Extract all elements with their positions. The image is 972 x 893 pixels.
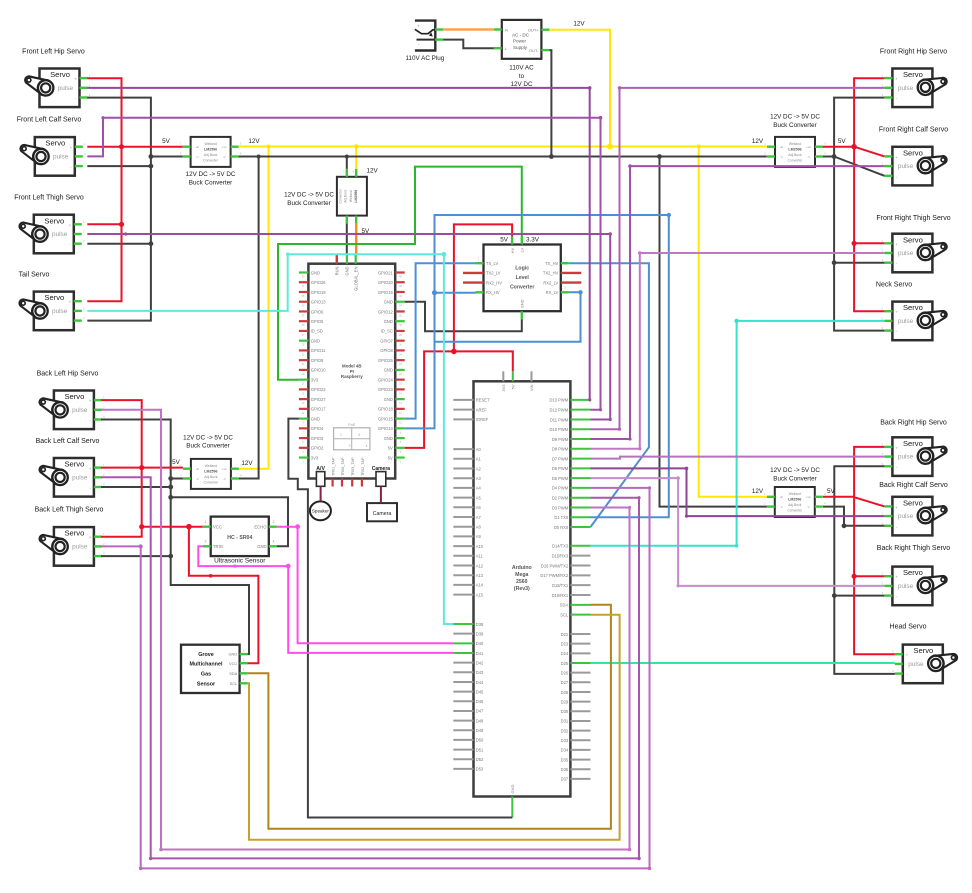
wire: back-right calf pulse to D6	[591, 468, 885, 516]
svg-text:PoE: PoE	[348, 423, 355, 427]
svg-text:D1 TX0: D1 TX0	[554, 515, 569, 520]
wire: AC plug to PSU N (orange)	[443, 28, 494, 31]
svg-text:5V: 5V	[162, 138, 171, 145]
svg-text:GPIO12: GPIO12	[378, 309, 394, 314]
svg-text:D3 PWM: D3 PWM	[552, 505, 569, 510]
svg-text:D35: D35	[561, 757, 569, 762]
wire: front-right hip pulse to D10	[591, 88, 885, 429]
svg-text:D28: D28	[561, 690, 569, 695]
svg-text:A5: A5	[476, 495, 482, 500]
svg-text:Head Servo: Head Servo	[890, 624, 927, 631]
svg-text:pulse: pulse	[72, 544, 88, 551]
svg-text:pulse: pulse	[908, 661, 924, 668]
svg-text:+V: +V	[780, 145, 784, 149]
svg-text:A0: A0	[476, 447, 482, 452]
svg-text:Front Right Hip Servo: Front Right Hip Servo	[880, 49, 947, 56]
svg-text:5V: 5V	[500, 237, 509, 244]
svg-text:-V: -V	[780, 505, 783, 509]
svg-text:12V: 12V	[248, 138, 260, 145]
svg-text:D32: D32	[561, 728, 569, 733]
svg-text:pulse: pulse	[52, 231, 68, 238]
svg-text:TR02_TAP: TR02_TAP	[361, 457, 365, 476]
svg-text:Servo: Servo	[903, 235, 923, 244]
wire: front-right thigh pulse to D8	[591, 253, 885, 449]
svg-text:GPIO9: GPIO9	[311, 358, 324, 363]
svg-text:D4 PWM: D4 PWM	[552, 486, 569, 491]
svg-text:D2 PWM: D2 PWM	[552, 496, 569, 501]
svg-text:A2: A2	[476, 466, 482, 471]
svg-text:GPIO19: GPIO19	[311, 290, 327, 295]
wire: Arduino SCL to gas sensor SCL	[248, 615, 620, 840]
servo: Back Right Hip Servo	[880, 420, 947, 476]
svg-text:A4: A4	[476, 486, 482, 491]
svg-text:D44: D44	[476, 680, 484, 685]
svg-text:12V: 12V	[573, 21, 585, 28]
svg-text:D42: D42	[476, 660, 484, 665]
svg-text:+: +	[895, 310, 898, 315]
svg-text:A7: A7	[476, 515, 482, 520]
svg-text:-V: -V	[196, 155, 199, 159]
svg-text:(Rev3): (Rev3)	[514, 586, 530, 592]
wire: Pi GPIO15 to LLC TX_LV	[405, 263, 476, 418]
svg-text:Converter: Converter	[510, 285, 535, 291]
svg-text:Supply: Supply	[513, 45, 528, 50]
svg-text:A10: A10	[476, 544, 484, 549]
svg-text:+Vo: +Vo	[222, 467, 227, 471]
wire: front-left thigh pulse to D11	[87, 234, 610, 420]
wire: 12V drop to back-right buck	[699, 147, 767, 497]
svg-text:110V AC Plug: 110V AC Plug	[406, 55, 445, 62]
svg-text:Buck Converter: Buck Converter	[186, 443, 229, 450]
wire: front-right calf pulse to D9	[591, 166, 885, 439]
svg-text:3: 3	[273, 520, 275, 524]
svg-text:D31: D31	[561, 719, 569, 724]
wire: back-left thigh pulse to D4	[101, 488, 649, 869]
svg-text:pulse: pulse	[898, 318, 914, 325]
svg-text:GPIO4: GPIO4	[311, 426, 324, 431]
svg-text:GPIO18: GPIO18	[378, 407, 394, 412]
servo: Neck Servo	[876, 282, 947, 341]
svg-text:Converter: Converter	[788, 158, 804, 162]
buck converter front-left	[180, 137, 242, 187]
svg-text:D15/RX3: D15/RX3	[552, 553, 569, 558]
wire: Pi GND16 to Arduino GND	[288, 419, 512, 818]
svg-text:VIN: VIN	[529, 384, 534, 391]
svg-text:GND: GND	[384, 300, 393, 305]
wire: Pi 5V to LLC HV and Arduino 5V	[405, 351, 454, 448]
servo: Front Right Hip Servo	[880, 49, 947, 108]
svg-text:+V: +V	[779, 495, 783, 499]
svg-text:3.3V: 3.3V	[526, 237, 540, 244]
svg-text:GND: GND	[384, 368, 393, 373]
svg-text:GND: GND	[384, 436, 393, 441]
svg-text:D23: D23	[561, 641, 569, 646]
svg-text:GPIO20: GPIO20	[378, 280, 394, 285]
servo: Back Right Calf Servo	[879, 482, 948, 535]
svg-text:+V: +V	[195, 145, 199, 149]
svg-text:+: +	[895, 77, 898, 82]
wire: front-left hip pulse to D13	[87, 88, 590, 400]
svg-text:4: 4	[273, 540, 275, 544]
svg-text:Servo: Servo	[913, 646, 933, 655]
svg-text:D39: D39	[476, 631, 484, 636]
wire: PSU OUT+ to 12V bus	[549, 30, 610, 147]
svg-text:pulse: pulse	[898, 513, 914, 520]
svg-text:A6: A6	[476, 505, 482, 510]
svg-text:+: +	[89, 535, 92, 540]
svg-text:pulse: pulse	[898, 85, 914, 92]
svg-text:Servo: Servo	[903, 439, 923, 448]
svg-text:ID_SC: ID_SC	[381, 329, 393, 334]
svg-text:-V: -V	[807, 155, 810, 159]
svg-text:Speaker: Speaker	[312, 509, 330, 514]
svg-text:12V: 12V	[367, 168, 379, 175]
camera module	[367, 503, 397, 521]
svg-text:+Vo: +Vo	[806, 495, 811, 499]
svg-text:Back Left Calf Servo: Back Left Calf Servo	[36, 438, 100, 445]
svg-text:GND: GND	[229, 652, 238, 657]
svg-text:-V: -V	[807, 505, 810, 509]
wire: main ground bus	[151, 156, 183, 158]
svg-text:SDA: SDA	[560, 603, 569, 608]
svg-text:TX2_LV: TX2_LV	[486, 271, 501, 276]
svg-text:D25: D25	[561, 661, 569, 666]
svg-text:GND: GND	[510, 785, 515, 794]
wire: AC plug to PSU L	[443, 40, 494, 49]
svg-text:Servo: Servo	[64, 460, 84, 469]
svg-text:+: +	[417, 24, 420, 29]
svg-text:TX_HV: TX_HV	[545, 261, 558, 266]
svg-text:GPIO21: GPIO21	[378, 270, 394, 275]
svg-text:D52: D52	[476, 757, 484, 762]
svg-text:ECHO: ECHO	[254, 525, 267, 530]
wire: tail servo pulse to Arduino D38	[87, 254, 453, 624]
svg-text:GPIO10: GPIO10	[311, 368, 327, 373]
wire: Pi RUN stub	[336, 254, 338, 264]
AC-DC power supply 110V AC to 12V DC	[494, 20, 550, 88]
svg-text:GPIO6: GPIO6	[311, 309, 324, 314]
110V AC plug	[406, 21, 445, 62]
svg-text:SCL: SCL	[230, 681, 238, 686]
svg-text:+: +	[69, 223, 72, 228]
svg-text:A/V: A/V	[316, 466, 325, 472]
svg-text:+: +	[89, 399, 92, 404]
svg-text:Servo: Servo	[44, 216, 64, 225]
svg-text:PI: PI	[350, 369, 354, 374]
svg-text:3V3: 3V3	[311, 455, 319, 460]
svg-text:LM2596: LM2596	[788, 147, 801, 151]
svg-text:+: +	[895, 505, 898, 510]
wire: front-left servo power bus	[87, 78, 121, 301]
svg-text:LM2596: LM2596	[354, 190, 358, 203]
svg-text:Front Left Hip Servo: Front Left Hip Servo	[22, 49, 85, 56]
svg-text:RUN: RUN	[335, 266, 340, 275]
svg-text:to: to	[519, 73, 525, 80]
svg-text:GPIO16: GPIO16	[378, 290, 394, 295]
svg-text:D48: D48	[476, 718, 484, 723]
servo: Back Left Calf Servo	[36, 438, 106, 497]
svg-text:GND: GND	[311, 270, 320, 275]
svg-text:D29: D29	[561, 699, 569, 704]
svg-text:LV: LV	[521, 248, 525, 253]
svg-text:Converter: Converter	[338, 188, 342, 203]
svg-text:Back Right Hip Servo: Back Right Hip Servo	[880, 420, 947, 427]
svg-text:2560: 2560	[516, 579, 528, 585]
svg-text:Front Right Calf Servo: Front Right Calf Servo	[879, 127, 948, 134]
svg-text:AREF: AREF	[476, 407, 487, 412]
svg-text:Servo: Servo	[903, 148, 923, 157]
svg-text:GPIO8: GPIO8	[380, 348, 393, 353]
svg-text:+Vo: +Vo	[222, 145, 227, 149]
svg-text:D47: D47	[476, 709, 484, 714]
svg-text:3V3: 3V3	[311, 377, 319, 382]
wire: head servo pulse to Arduino D25	[591, 662, 895, 664]
svg-text:Camera: Camera	[373, 511, 392, 517]
svg-text:D34: D34	[561, 748, 569, 753]
svg-text:Grove: Grove	[198, 652, 214, 658]
wire: back-right thigh pulse to D5	[591, 478, 885, 586]
svg-text:Arduino: Arduino	[512, 565, 532, 571]
svg-text:TR01_TAP: TR01_TAP	[332, 457, 336, 476]
svg-text:D8 PWM: D8 PWM	[552, 447, 569, 452]
svg-text:D43: D43	[476, 670, 484, 675]
wire: HC-SR04 VCC and gas sensor VCC	[142, 526, 203, 528]
svg-text:D7 PWM: D7 PWM	[552, 456, 569, 461]
svg-text:-V: -V	[196, 477, 199, 481]
svg-text:RX_HV: RX_HV	[486, 290, 500, 295]
svg-text:Front Left Thigh Servo: Front Left Thigh Servo	[14, 194, 84, 201]
svg-text:TRIG: TRIG	[213, 544, 223, 549]
svg-text:+: +	[895, 242, 898, 247]
svg-text:N: N	[505, 27, 508, 32]
svg-text:12V: 12V	[752, 488, 764, 495]
svg-text:+V: +V	[196, 467, 200, 471]
svg-text:OUT-: OUT-	[529, 48, 539, 53]
svg-text:Tail Servo: Tail Servo	[19, 272, 50, 279]
svg-text:HC - SR04: HC - SR04	[227, 535, 252, 541]
svg-text:GPIO24: GPIO24	[378, 377, 394, 382]
svg-text:Converter: Converter	[203, 480, 219, 484]
svg-text:pulse: pulse	[898, 163, 914, 170]
HC-SR04 ultrasonic sensor	[203, 517, 277, 565]
svg-text:D51: D51	[476, 747, 484, 752]
svg-text:D36: D36	[561, 767, 569, 772]
svg-text:A15: A15	[476, 592, 484, 597]
svg-text:A14: A14	[476, 583, 484, 588]
svg-text:+: +	[895, 445, 898, 450]
svg-text:D14/TX3: D14/TX3	[552, 544, 569, 549]
svg-text:GPIO17: GPIO17	[311, 407, 327, 412]
servo: Back Right Thigh Servo	[877, 545, 951, 605]
svg-text:2: 2	[205, 540, 207, 544]
svg-text:Sensor: Sensor	[197, 681, 216, 687]
logic level converter	[463, 237, 581, 320]
svg-text:-V: -V	[223, 477, 226, 481]
buck converter front-right	[764, 114, 826, 167]
svg-text:D9 PWM: D9 PWM	[552, 437, 569, 442]
svg-text:Buck Converter: Buck Converter	[287, 200, 330, 207]
svg-text:D26: D26	[561, 670, 569, 675]
wire: LLC RX_LV loop	[435, 292, 581, 342]
svg-text:pulse: pulse	[58, 85, 74, 92]
servo: Head Servo	[890, 624, 958, 684]
svg-text:D22: D22	[561, 632, 569, 637]
servo: Front Left Calf Servo	[17, 117, 86, 176]
svg-text:Buck Converter: Buck Converter	[189, 179, 232, 186]
svg-text:Back Right Calf Servo: Back Right Calf Servo	[879, 482, 948, 489]
svg-text:pulse: pulse	[898, 250, 914, 257]
svg-text:GPIO13: GPIO13	[311, 300, 327, 305]
wire: Arduino SDA to gas sensor SDA	[248, 605, 611, 829]
svg-text:D6 PWM: D6 PWM	[552, 466, 569, 471]
svg-text:GPIO2: GPIO2	[311, 446, 324, 451]
svg-text:D19/RX1: D19/RX1	[552, 593, 569, 598]
svg-text:D30: D30	[561, 709, 569, 714]
wire: back-left calf pulse to D2	[101, 477, 639, 858]
svg-text:GPIO5: GPIO5	[311, 319, 324, 324]
svg-text:GPIO7: GPIO7	[380, 338, 393, 343]
wire: Pi GND34 to LLC GND	[405, 302, 522, 332]
wire: back-left servo power bus	[101, 400, 142, 537]
svg-text:D11 PWM: D11 PWM	[550, 417, 569, 422]
svg-text:+: +	[70, 145, 73, 150]
svg-text:Welland: Welland	[205, 464, 217, 468]
wire: neck servo pulse to Arduino D14	[591, 321, 885, 546]
wire: ground drop to vertical buck	[346, 157, 348, 169]
wire: front-left servo ground bus	[87, 98, 151, 321]
svg-text:Logic: Logic	[515, 266, 529, 272]
svg-text:12V: 12V	[241, 460, 253, 467]
svg-text:Servo: Servo	[50, 70, 70, 79]
svg-text:HV: HV	[511, 248, 515, 254]
wire: back-left hip pulse to D3	[101, 410, 629, 850]
svg-text:TX_LV: TX_LV	[486, 261, 498, 266]
svg-text:pulse: pulse	[72, 474, 88, 481]
wire: PSU OUT- to ground bus	[549, 50, 551, 156]
svg-text:+Vo: +Vo	[806, 145, 811, 149]
svg-text:Ultrasonic Sensor: Ultrasonic Sensor	[214, 558, 266, 565]
svg-text:Power: Power	[513, 39, 526, 44]
svg-text:3V3: 3V3	[501, 384, 506, 392]
svg-text:GND: GND	[384, 319, 393, 324]
svg-text:Camera: Camera	[372, 466, 391, 472]
svg-text:12V DC -> 5V DC: 12V DC -> 5V DC	[183, 434, 233, 441]
buck converter back-left	[180, 434, 242, 489]
svg-text:Neck Servo: Neck Servo	[876, 282, 912, 289]
servo: Front Left Thigh Servo	[14, 194, 85, 253]
svg-text:D10 PWM: D10 PWM	[550, 427, 569, 432]
svg-text:GND: GND	[311, 338, 320, 343]
svg-text:D12 PWM: D12 PWM	[550, 407, 569, 412]
svg-text:Servo: Servo	[64, 392, 84, 401]
svg-text:Buck Converter: Buck Converter	[773, 475, 816, 482]
wire: back-right servo power bus	[823, 496, 853, 498]
svg-text:TR00_TAP: TR00_TAP	[341, 457, 345, 476]
svg-text:LM2596: LM2596	[204, 147, 217, 151]
svg-text:A3: A3	[476, 476, 482, 481]
svg-text:Servo: Servo	[45, 139, 65, 148]
svg-text:Welland: Welland	[789, 492, 801, 496]
svg-text:GPIO15: GPIO15	[378, 416, 394, 421]
svg-text:GPIO27: GPIO27	[311, 397, 327, 402]
svg-text:TX2_HV: TX2_HV	[543, 271, 559, 276]
svg-text:Mega: Mega	[515, 572, 528, 578]
svg-text:D46: D46	[476, 699, 484, 704]
svg-text:LM2596: LM2596	[204, 469, 217, 473]
svg-text:D38: D38	[476, 622, 484, 627]
svg-text:GND: GND	[345, 266, 350, 275]
svg-text:12V DC -> 5V DC: 12V DC -> 5V DC	[770, 114, 820, 121]
svg-text:+: +	[69, 300, 72, 305]
svg-text:D45: D45	[476, 689, 484, 694]
svg-text:D50: D50	[476, 738, 484, 743]
wire: vertical buck gnd to Pi GND	[346, 224, 348, 255]
svg-text:pulse: pulse	[52, 308, 68, 315]
svg-text:GLOBAL_EN: GLOBAL_EN	[353, 266, 358, 290]
svg-text:A8: A8	[476, 525, 482, 530]
servo: Back Left Hip Servo	[37, 371, 106, 430]
svg-text:5V: 5V	[388, 455, 393, 460]
svg-text:SCL: SCL	[560, 612, 569, 617]
Grove multichannel gas sensor	[181, 645, 248, 693]
svg-text:Back Right Thigh Servo: Back Right Thigh Servo	[877, 545, 951, 552]
junction: 12V bus dots	[607, 144, 613, 150]
svg-text:Front Left Calf Servo: Front Left Calf Servo	[17, 117, 82, 124]
wire: back-right hip pulse to D7	[591, 457, 885, 459]
svg-text:Front Right Thigh Servo: Front Right Thigh Servo	[876, 215, 950, 222]
svg-text:+: +	[74, 77, 77, 82]
svg-text:D16 PWM/TX2: D16 PWM/TX2	[541, 563, 569, 568]
svg-text:2: 2	[349, 444, 351, 448]
svg-text:5V: 5V	[388, 446, 393, 451]
svg-text:110V AC: 110V AC	[509, 65, 534, 72]
svg-text:D33: D33	[561, 738, 569, 743]
svg-text:A12: A12	[476, 563, 484, 568]
wire: front-left calf pulse to D12	[87, 118, 600, 410]
svg-text:pulse: pulse	[72, 407, 88, 414]
svg-text:D24: D24	[561, 651, 569, 656]
svg-text:Servo: Servo	[44, 293, 64, 302]
wire: 12V yellow bus	[239, 146, 767, 148]
svg-text:AC - DC: AC - DC	[512, 32, 530, 37]
wire: back-left servo ground bus to gas sensor GND	[101, 420, 249, 655]
svg-text:RX2_LV: RX2_LV	[543, 280, 558, 285]
svg-text:GND: GND	[384, 397, 393, 402]
svg-text:ID_SD: ID_SD	[311, 329, 323, 334]
svg-text:VCC: VCC	[213, 525, 222, 530]
svg-text:D27: D27	[561, 680, 569, 685]
svg-text:5V: 5V	[827, 488, 836, 495]
svg-text:1: 1	[205, 520, 207, 524]
wire: HC-SR04 TRIG to Arduino D41	[198, 546, 453, 653]
svg-text:Buck Converter: Buck Converter	[773, 122, 816, 129]
buck converter: vertical mid 12V DC -> 5V DC	[284, 169, 367, 224]
svg-text:Level: Level	[516, 275, 530, 281]
wire: vertical buck 5V to Pi GLOBAL_EN (orange)	[355, 224, 357, 255]
svg-text:TR03_TAP: TR03_TAP	[351, 457, 355, 476]
svg-text:1: 1	[340, 433, 342, 437]
wire: A/V to speaker	[320, 486, 322, 501]
wire: HC-SR04 GND loop	[171, 497, 288, 546]
svg-text:Converter: Converter	[203, 158, 219, 162]
svg-text:VCC: VCC	[229, 661, 237, 666]
svg-text:-V: -V	[780, 155, 783, 159]
svg-text:Back Left Thigh Servo: Back Left Thigh Servo	[35, 507, 104, 514]
svg-text:12V DC -> 5V DC: 12V DC -> 5V DC	[284, 192, 334, 199]
buck converter back-right	[764, 467, 826, 517]
svg-text:Converter: Converter	[787, 509, 803, 513]
svg-text:SDA: SDA	[229, 671, 237, 676]
